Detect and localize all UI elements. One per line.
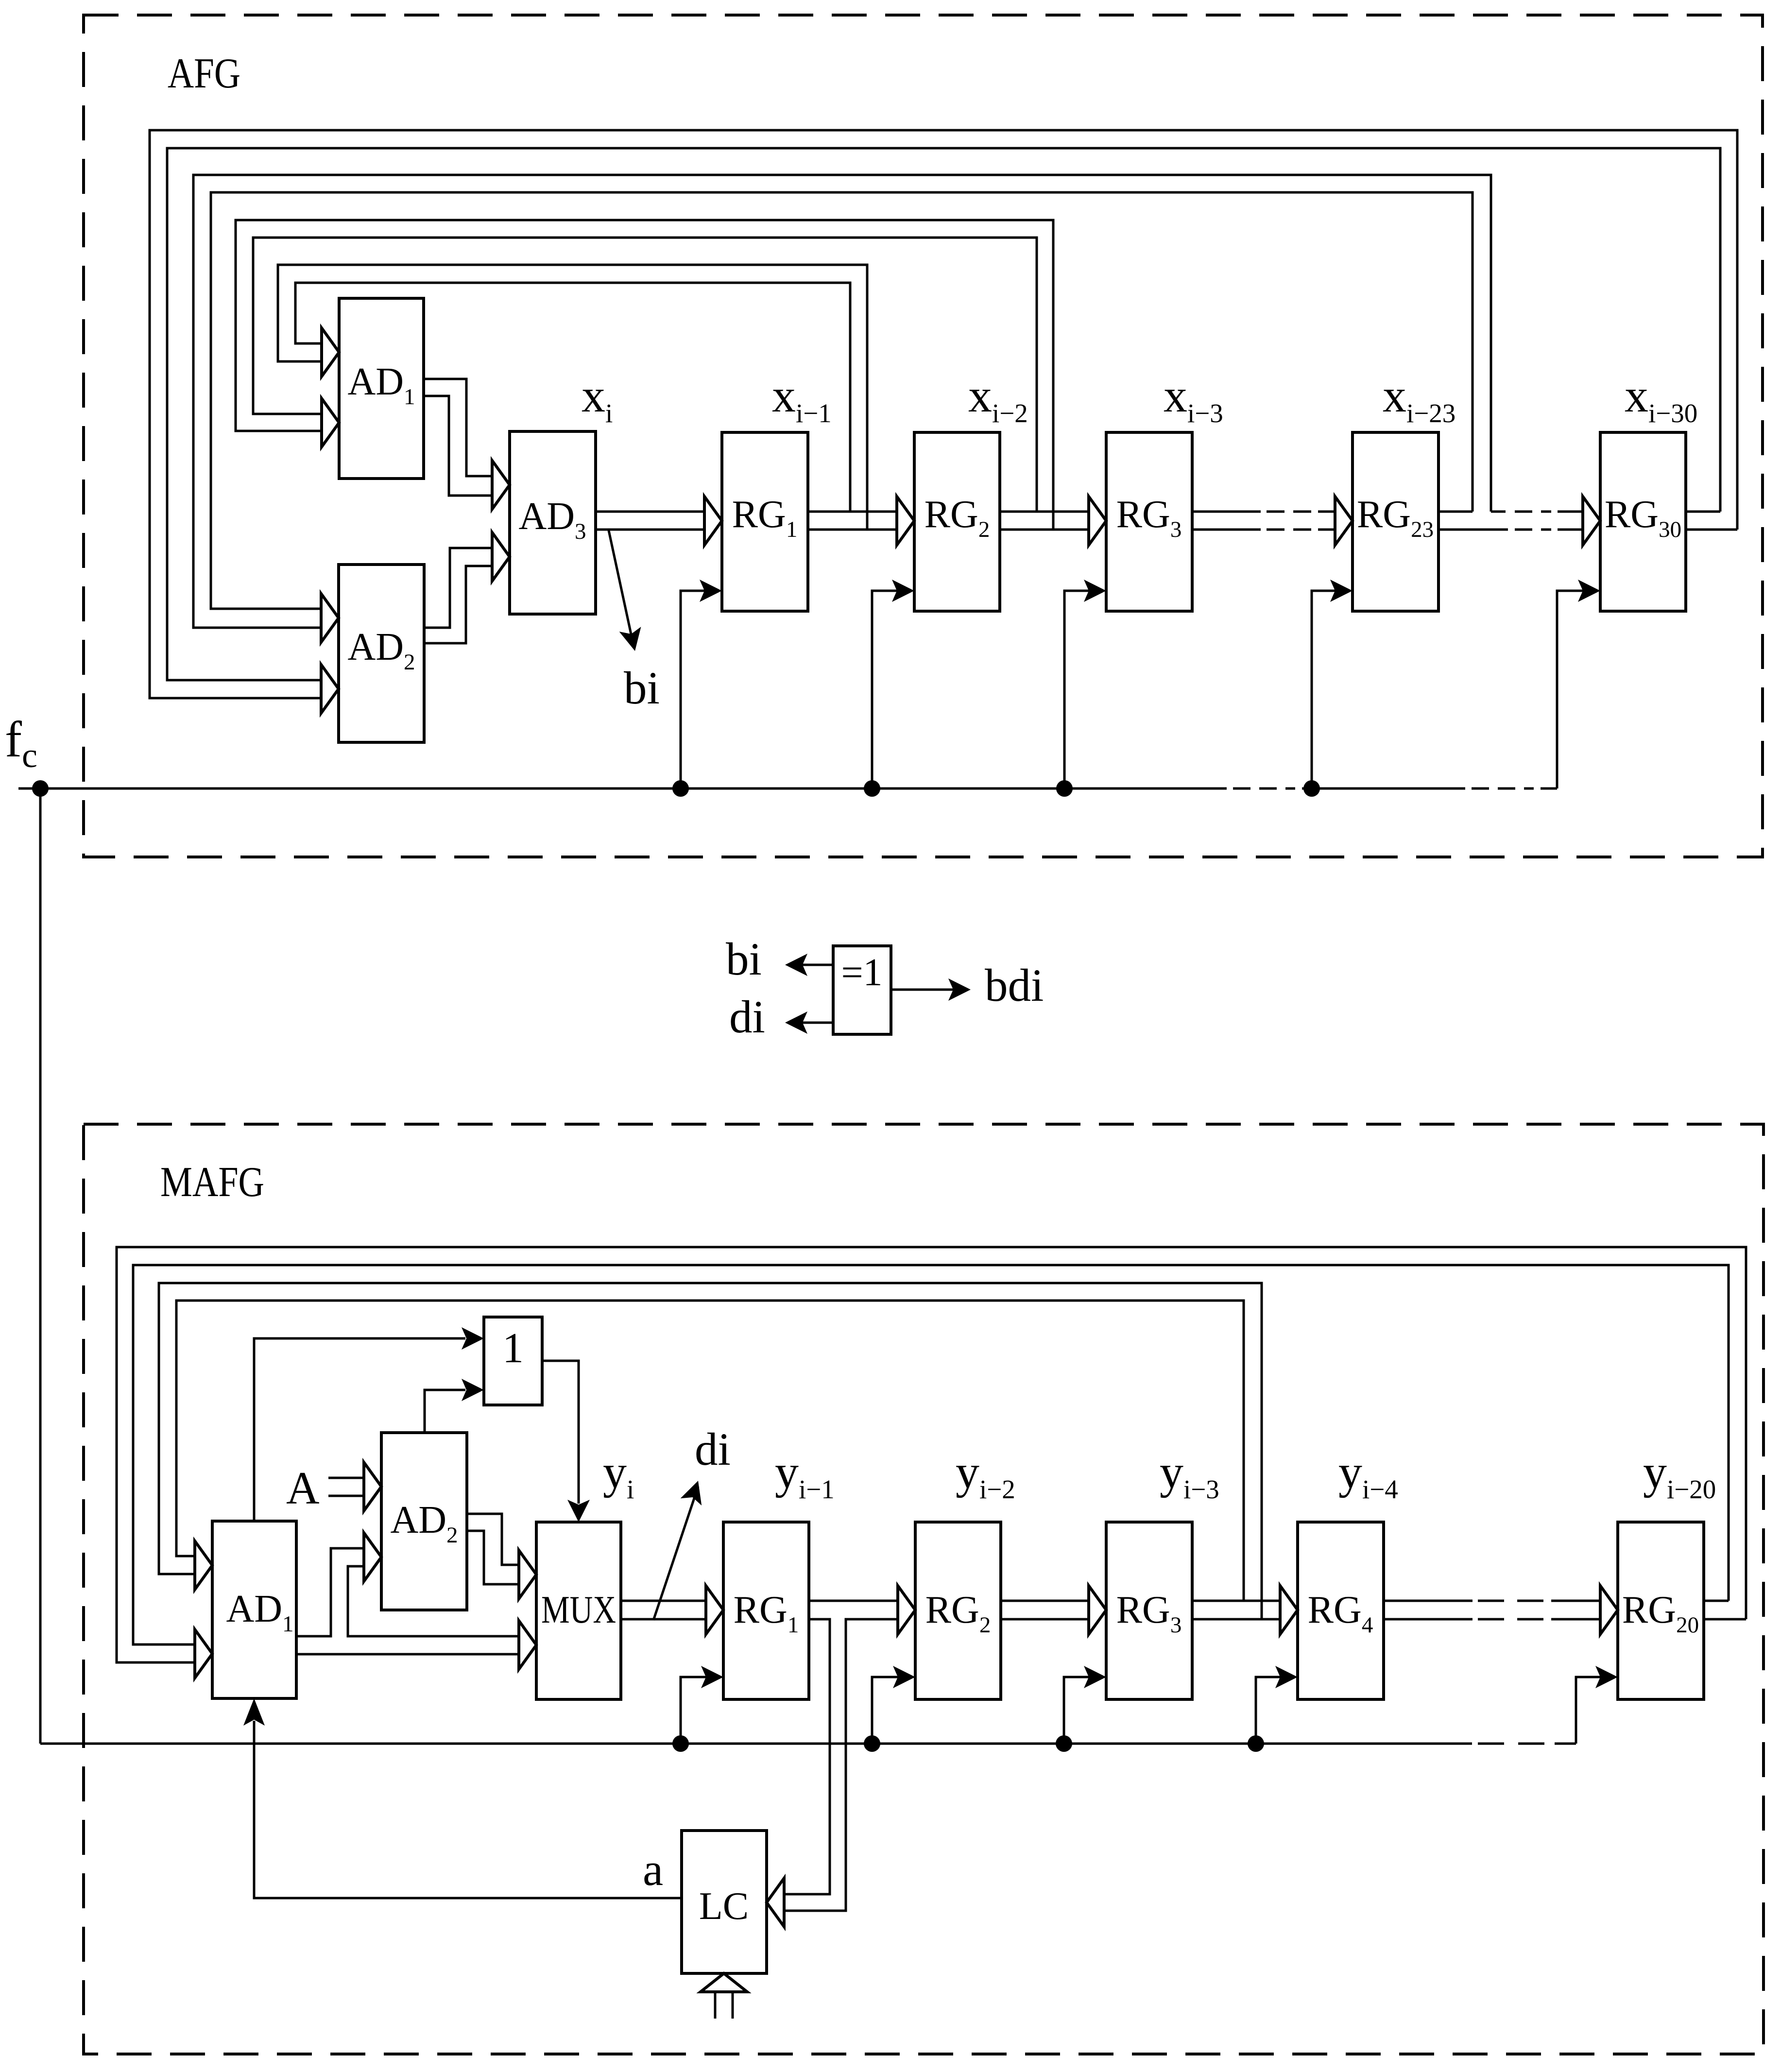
node clock RG1 dot (MAFG) — [672, 1735, 689, 1752]
bus xi-1 upper RG1-RG2 — [808, 511, 896, 513]
input arrow LC bottom (points up) — [701, 1973, 747, 1992]
arrowhead di tap — [681, 1481, 702, 1506]
wire AD2 lower output to AD3 — [424, 566, 492, 643]
wire bdi output right — [891, 989, 953, 991]
bus xi-30 upper RG30 out — [1686, 511, 1720, 513]
node clock RG3 dot (MAFG) — [1056, 1735, 1072, 1752]
node clock RG1 dot — [672, 780, 689, 797]
bus yi-1 upper RG1-RG2 — [809, 1600, 896, 1602]
bus xi-2 lower RG2-RG3 — [1000, 529, 1088, 531]
svg-text:MUX: MUX — [541, 1589, 616, 1631]
svg-text:a: a — [643, 1844, 663, 1895]
xor gate box =1 — [833, 946, 891, 1034]
arrowhead clock RG2 (AFG) — [892, 580, 914, 602]
wire clock RG23 (AFG) — [1312, 591, 1336, 788]
bus xi-23 upper cont dashed — [1515, 511, 1551, 513]
register RG20 (MAFG) — [1618, 1522, 1704, 1699]
input arrow AD2 A (MAFG) — [364, 1462, 381, 1511]
wire LC bottom stub left — [714, 1992, 717, 2019]
input arrow RG30 — [1583, 497, 1600, 545]
adder AD1 (AFG) — [339, 298, 424, 479]
bus yi-1 lower from LC branch to RG2 — [785, 1619, 896, 1911]
arrowhead clock RG2 (MAFG) — [893, 1666, 915, 1688]
register RG2 (AFG) — [914, 432, 1000, 611]
wire clock RG2 (MAFG) — [872, 1677, 899, 1744]
wire AD1 upper out to AD2 (MAFG) — [296, 1548, 363, 1636]
input arrow RG1 — [704, 497, 722, 545]
bus xi-23 upper cont to RG30 — [1558, 511, 1582, 513]
logic circuit LC — [682, 1831, 767, 1973]
input arrow AD1 upper — [322, 328, 339, 377]
input arrow RG23 — [1335, 497, 1353, 545]
adder AD2 (MAFG) — [381, 1433, 467, 1610]
svg-text:AFG: AFG — [168, 50, 240, 97]
adder AD2 (AFG) — [339, 565, 424, 742]
wire clock RG1 (AFG) — [681, 591, 705, 788]
bus xi-2 upper RG2-RG3 — [1000, 511, 1088, 513]
svg-text:bi: bi — [624, 662, 660, 714]
wire fc MAFG dashed — [1478, 1743, 1545, 1745]
wire loop5 outer RG2-to-AD1 lower entry — [236, 220, 1053, 530]
bus xi-23 upper cont solid — [1491, 511, 1506, 513]
node clock RG2 dot (MAFG) — [864, 1735, 880, 1752]
bus xi-3 upper solid to RG23 — [1318, 511, 1335, 513]
input arrow AD2 lower (MAFG) — [364, 1533, 381, 1581]
wire loop1 outer RG30-to-AD2 lower entry — [150, 130, 1737, 698]
node fc branch dot — [32, 780, 49, 797]
register RG23 (AFG) — [1353, 432, 1438, 611]
bus yi-4 upper dashed — [1478, 1600, 1543, 1602]
svg-text:di: di — [695, 1423, 731, 1475]
input arrow AD1 lower — [322, 398, 339, 447]
input arrow LC right (points left) — [767, 1878, 784, 1927]
wire AD2 upper out to MUX — [467, 1514, 518, 1565]
wire AD1 top to block1 — [254, 1338, 465, 1521]
wire bi tap diagonal — [609, 531, 632, 636]
wire loop8 inner RG1-to-AD1 — [295, 283, 850, 512]
bus yi-4 lower dashed — [1478, 1618, 1543, 1621]
multiplexer MUX — [536, 1522, 621, 1699]
wire fc dashed 2 — [1472, 788, 1534, 790]
wire A lower line — [328, 1495, 363, 1497]
bus yi-3 upper RG3-RG4 — [1192, 1600, 1280, 1602]
dashed frame AFG box — [84, 15, 1763, 857]
wire fc MAFG solid 2 — [1555, 1743, 1576, 1745]
wire loop3 outer RG23-to-AD2 upper entry — [193, 175, 1491, 628]
svg-text:MAFG: MAFG — [160, 1159, 264, 1206]
bus yi-4 lower to RG20 — [1551, 1618, 1600, 1621]
register RG1 (AFG) — [722, 432, 808, 611]
bus xi-3 upper dashed — [1267, 511, 1311, 513]
wire loop6 inner RG2-to-AD1 — [253, 238, 1037, 512]
input arrow AD3 upper — [492, 461, 510, 509]
bus xi-3 upper solid RG3 — [1192, 511, 1261, 513]
wire mloop2 inner RG20-to-AD1 — [133, 1265, 1729, 1644]
wire clock RG4 (MAFG) — [1256, 1677, 1281, 1744]
svg-text:LC: LC — [699, 1885, 749, 1928]
svg-text:1: 1 — [502, 1325, 524, 1372]
wire fc solid 3 — [1541, 788, 1557, 790]
svg-text:=1: =1 — [841, 951, 882, 994]
register RG3 (AFG) — [1106, 432, 1192, 611]
input arrow RG2 (MAFG) — [898, 1586, 915, 1634]
block 1 (constant unit) — [484, 1317, 542, 1405]
bus yi-4 lower solid — [1384, 1618, 1473, 1621]
bus xi lower AD3-RG1 — [596, 529, 704, 531]
wire clock RG30 (AFG) — [1557, 591, 1584, 788]
input arrow RG20 (MAFG) — [1600, 1586, 1618, 1634]
bus xi-3 lower solid RG3 — [1192, 529, 1261, 531]
register RG1 (MAFG) — [723, 1522, 809, 1699]
bus yi-20 lower RG20 out — [1704, 1618, 1746, 1621]
wire di tap diagonal — [653, 1487, 698, 1620]
wire AD1 lower output to AD3 — [424, 396, 492, 496]
wire bi output left — [803, 964, 833, 966]
wire loop4 inner RG23-to-AD2 — [211, 192, 1473, 609]
register RG3 (MAFG) — [1106, 1522, 1192, 1699]
node clock RG23 dot — [1303, 780, 1320, 797]
wire clock RG1 (MAFG) — [681, 1677, 707, 1744]
wire a output LC to AD1 — [254, 1721, 682, 1898]
bus yi-2 lower RG2-RG3 — [1001, 1618, 1088, 1621]
adder AD3 (AFG) — [510, 431, 596, 614]
input arrow MUX upper — [519, 1550, 536, 1599]
arrowhead AD2-to-block1 — [462, 1379, 484, 1401]
wire mloop4 inner RG3-to-AD1 — [176, 1301, 1244, 1601]
arrowhead bi tap — [619, 627, 641, 651]
bus xi-23 lower to RG30 — [1558, 529, 1582, 531]
wire fc main solid — [18, 788, 1227, 790]
arrowhead bdi right — [948, 978, 971, 1001]
register RG2 (MAFG) — [915, 1522, 1001, 1699]
wire AD2 entry to MUX link (MAFG) — [348, 1566, 518, 1636]
input arrow RG3 (MAFG) — [1089, 1586, 1106, 1634]
arrowhead clock RG4 (MAFG) — [1275, 1666, 1298, 1688]
arrowhead clock RG23 (AFG) — [1330, 580, 1353, 602]
input arrow AD1 lower (MAFG) — [195, 1629, 212, 1678]
adder AD1 (MAFG) — [212, 1521, 296, 1698]
wire fc dashed 1 — [1233, 788, 1295, 790]
bus yi-20 upper RG20 out — [1704, 1600, 1729, 1602]
wire LC bottom stub right — [732, 1992, 734, 2019]
wire mloop3 outer RG3-to-AD1 upper — [159, 1283, 1262, 1619]
wire clock RG20 (MAFG) — [1576, 1677, 1601, 1744]
bus xi-23 upper RG23 stub — [1439, 511, 1473, 513]
arrowhead clock RG20 (MAFG) — [1595, 1666, 1618, 1688]
wire AD2 top to block1 — [425, 1390, 465, 1433]
input arrow MUX lower — [519, 1621, 536, 1669]
wire AD1 upper output to AD3 — [424, 379, 492, 476]
wire fc vertical drop — [39, 788, 42, 1744]
bus yi upper MUX-RG1 — [621, 1600, 705, 1602]
svg-text:bi: bi — [726, 933, 762, 985]
input arrow AD2 lower — [321, 665, 339, 713]
node clock RG2 dot — [864, 780, 880, 797]
bus xi-3 lower solid to RG23 — [1318, 529, 1335, 531]
bus xi-23 lower dashed — [1515, 529, 1551, 531]
wire AD1 lower out to MUX (MAFG) — [296, 1653, 518, 1656]
node clock RG4 dot (MAFG) — [1248, 1735, 1264, 1752]
wire clock RG3 (AFG) — [1064, 591, 1090, 788]
wire block1 out to MUX top (y_i) — [542, 1361, 579, 1504]
input arrow RG2 — [897, 497, 914, 545]
wire di output left — [803, 1022, 833, 1024]
bus yi-4 upper to RG20 — [1551, 1600, 1600, 1602]
wire mloop1 outer RG20-to-AD1 lower — [117, 1247, 1746, 1662]
bus xi upper AD3-RG1 — [596, 511, 704, 513]
svg-text:A: A — [286, 1462, 320, 1514]
arrowhead clock RG3 (MAFG) — [1084, 1666, 1106, 1688]
wire A upper line — [328, 1477, 363, 1479]
bus xi-1 lower RG1-RG2 — [808, 529, 896, 531]
arrowhead a to AD1 bottom — [243, 1698, 265, 1726]
node clock RG3 dot — [1056, 780, 1073, 797]
wire loop2 inner RG30-to-AD2 — [167, 148, 1720, 680]
bus yi-4 upper solid — [1384, 1600, 1473, 1602]
wire loop7 outer RG1-to-AD1 upper entry — [278, 265, 867, 530]
bus yi-2 upper RG2-RG3 — [1001, 1600, 1088, 1602]
svg-text:di: di — [729, 991, 765, 1043]
bus yi lower MUX-RG1 — [621, 1618, 705, 1621]
arrowhead clock RG1 (MAFG) — [701, 1666, 723, 1688]
register RG4 (MAFG) — [1298, 1522, 1384, 1699]
wire fc MAFG solid — [40, 1743, 1472, 1745]
arrowhead clock RG3 (AFG) — [1084, 580, 1106, 602]
bus xi-23 lower solid — [1439, 529, 1508, 531]
bus yi-1 lower to LC — [785, 1619, 830, 1894]
arrowhead di left — [785, 1011, 807, 1034]
input arrow RG1 (MAFG) — [706, 1586, 723, 1634]
wire AD2 lower out to MUX — [467, 1531, 518, 1584]
wire fc solid 2 — [1302, 788, 1465, 790]
arrowhead clock RG1 (AFG) — [700, 580, 722, 602]
input arrow AD1 upper (MAFG) — [195, 1541, 212, 1590]
arrowhead bi left — [785, 954, 807, 976]
arrowhead AD1-to-block1 — [462, 1327, 484, 1350]
bus xi-3 lower dashed — [1267, 529, 1311, 531]
register RG30 (AFG) — [1600, 432, 1686, 611]
input arrow AD2 upper — [321, 594, 339, 642]
wire AD2 upper output to AD3 — [424, 548, 492, 628]
dashed frame MAFG box — [84, 1124, 1764, 2054]
wire clock RG3 (MAFG) — [1064, 1677, 1090, 1744]
svg-text:bdi: bdi — [985, 959, 1044, 1011]
arrowhead block1-to-MUX — [567, 1500, 590, 1522]
input arrow RG4 (MAFG) — [1280, 1586, 1298, 1634]
bus yi-3 lower RG3-RG4 — [1192, 1618, 1280, 1621]
arrowhead clock RG30 (AFG) — [1578, 580, 1600, 602]
input arrow AD3 lower — [492, 532, 510, 581]
input arrow RG3 — [1089, 497, 1106, 545]
bus xi-30 lower RG30 out — [1686, 529, 1737, 531]
wire clock RG2 (AFG) — [872, 591, 898, 788]
